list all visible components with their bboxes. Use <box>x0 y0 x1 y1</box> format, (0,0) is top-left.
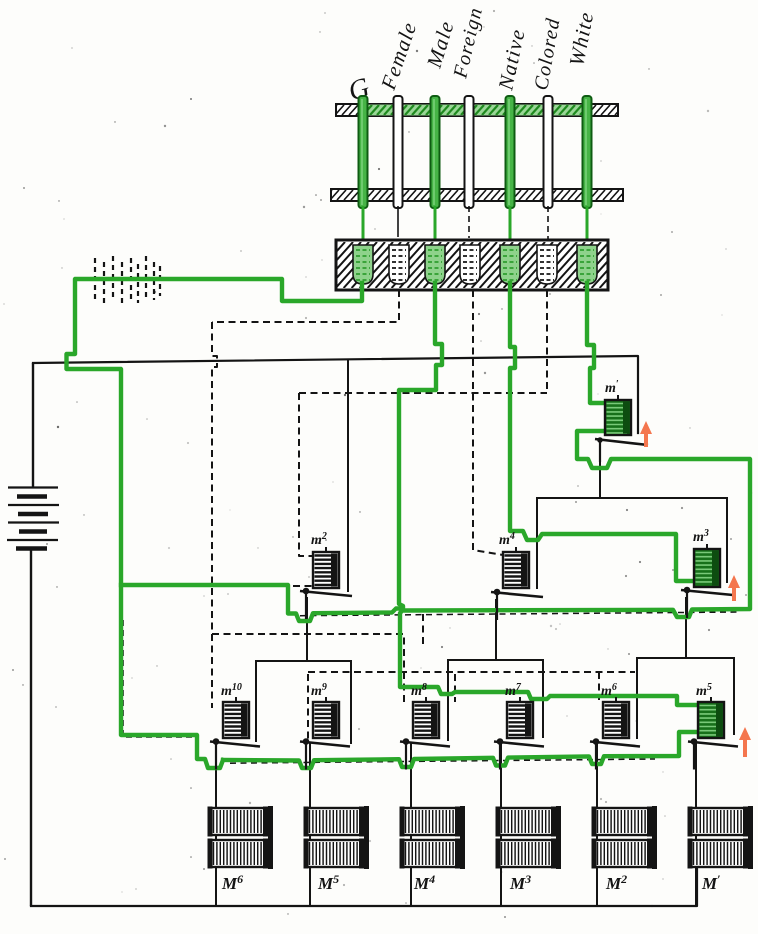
pin P6 <box>544 96 553 208</box>
relay m3 armature <box>681 587 733 618</box>
wire dashed long link to m6 coil <box>308 672 635 700</box>
mercury cup 3 <box>425 245 445 284</box>
wire dashed cup2 branch <box>212 290 399 322</box>
wire dashed m2 coil bottom stub <box>293 585 313 587</box>
label Female <box>376 18 422 93</box>
wire m1 pivot to m4/m3 anvils <box>537 441 727 588</box>
relay m9 armature <box>300 738 350 769</box>
relay m9 coil <box>311 682 339 738</box>
wire relay pivot to counter M1 to bottom bus <box>695 744 697 906</box>
mercury cup 4 <box>460 245 480 284</box>
arrow at m3 <box>728 575 740 601</box>
mercury cup block <box>296 240 641 290</box>
counter electromagnet M5 <box>304 806 370 893</box>
wire relay pivot to counter M2 to bottom bus <box>596 744 598 906</box>
relay m3 coil <box>693 528 720 587</box>
wire bottom return bus <box>31 868 697 906</box>
wire relay pivot to counter M3 to bottom bus <box>500 744 502 906</box>
wire green overlay on upper bar <box>349 105 596 116</box>
relay m6 coil <box>601 682 629 738</box>
wire pin3 to cup3 <box>434 206 437 250</box>
wire dashed under green bottom bus <box>230 759 655 763</box>
label Foreign <box>449 5 487 81</box>
counter electromagnet M4 <box>400 806 466 893</box>
relay m1 coil <box>605 379 631 435</box>
wire dashed stub near m8 <box>422 614 424 648</box>
wire m2 armature to box over m10/m9 <box>256 598 351 743</box>
pin P4 <box>465 96 474 208</box>
wire dashed link to m8 coil <box>212 634 404 702</box>
label Colored <box>530 16 564 92</box>
arrow at m5 <box>739 727 751 757</box>
wire main bus from battery <box>33 356 638 433</box>
wire green cup5 to m3 coil <box>510 283 694 581</box>
pin frame upper bar G <box>328 104 624 116</box>
pin P5 <box>506 96 515 208</box>
pin P2 <box>394 96 403 208</box>
wire dashed cup6 branch <box>546 290 548 393</box>
relay m1 armature <box>595 437 648 462</box>
counter electromagnet M1 <box>688 806 754 893</box>
wire dashed cross link <box>299 392 547 394</box>
pin P7 <box>583 96 592 208</box>
mercury cup 7 <box>577 245 597 284</box>
wire relay pivot to counter M5 to bottom bus <box>309 744 311 906</box>
label Native <box>493 26 530 93</box>
relay m2 armature <box>300 588 352 619</box>
wire dashed m7 side <box>454 674 456 702</box>
wire m4 armature to box over m8/m7 <box>448 600 543 740</box>
wire dashed to m2 coil <box>299 393 313 556</box>
relay m4 coil <box>499 531 529 588</box>
wire relay pivot to counter M6 to bottom bus <box>215 744 217 906</box>
wire green bottom bus <box>223 732 698 768</box>
wire dashed under green middle bus <box>300 612 740 616</box>
mercury cup 1 <box>353 245 373 284</box>
counter electromagnet M6 <box>208 806 274 893</box>
counter electromagnet M3 <box>496 806 562 893</box>
wire bus to m2 contact anvil <box>347 361 349 591</box>
relay m5 coil <box>696 682 724 738</box>
counter electromagnet M2 <box>592 806 658 893</box>
wire pin2 stub <box>397 206 399 237</box>
pin P1 <box>359 96 368 208</box>
wire green cup7 to m1 coil <box>587 283 605 403</box>
wire green cup3 to m5 coil <box>399 283 698 705</box>
relay m7 armature <box>494 738 544 769</box>
wire pin1 to cup1 <box>362 206 365 250</box>
relay m8 armature <box>400 738 450 769</box>
relay m7 coil <box>505 682 533 738</box>
wire green middle branch <box>121 431 750 621</box>
wire dashed trunk <box>212 322 217 708</box>
relay m6 armature <box>590 738 640 769</box>
wire dashed under green battery branch <box>123 620 199 737</box>
mercury cup 6 <box>537 245 557 284</box>
relay m8 coil <box>411 682 439 738</box>
wire green cup1 to battery branch <box>67 279 363 768</box>
relay m2 coil <box>311 531 339 588</box>
battery <box>7 363 59 906</box>
arrow at m1 <box>640 421 652 447</box>
pin frame lower bar <box>323 189 626 201</box>
mercury cup 2 <box>389 245 409 284</box>
wire pin5 to cup5 <box>509 206 512 250</box>
contact brush ticks <box>95 256 160 306</box>
wire relay pivot to counter M4 to bottom bus <box>410 744 412 906</box>
label G (pin frame) <box>345 72 374 108</box>
label White <box>564 9 598 68</box>
wire dashed cup4 to m4 coil <box>473 290 503 555</box>
wire m3 armature to box over m6/m5 <box>637 598 734 738</box>
relay m10 armature <box>210 738 260 769</box>
relay m4 armature <box>491 589 543 620</box>
wire pin7 to cup7 <box>586 206 589 250</box>
wire pin4 stub <box>468 206 470 238</box>
relay m10 coil <box>221 682 249 738</box>
label Male <box>422 18 459 72</box>
wire pin6 stub <box>547 206 549 240</box>
mercury cup 5 <box>500 245 520 284</box>
pin P3 <box>431 96 440 208</box>
wire dashed m9 side <box>307 674 309 739</box>
relay m5 armature <box>688 738 738 769</box>
